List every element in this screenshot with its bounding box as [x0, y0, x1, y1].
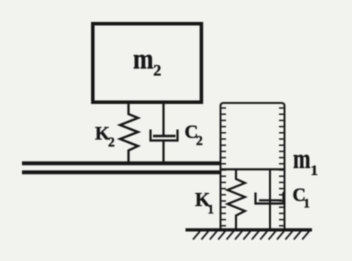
damper C2 piston — [153, 135, 176, 138]
container m1 outline — [221, 103, 285, 229]
damper C1 rod — [269, 170, 271, 229]
label C2 — [185, 122, 204, 148]
spring K1 — [228, 170, 246, 229]
damper C1 cup — [256, 192, 284, 204]
label K1 — [195, 190, 214, 217]
svg-text:1: 1 — [208, 202, 215, 217]
label C1 — [293, 186, 310, 211]
ground line — [186, 228, 313, 231]
svg-text:m: m — [133, 43, 154, 76]
svg-text:1: 1 — [311, 163, 319, 179]
beam lower wire — [22, 170, 220, 174]
label m2 — [133, 43, 161, 80]
platform line inside m1 — [221, 168, 285, 170]
label K2 — [95, 124, 115, 150]
spring K2 — [120, 104, 138, 162]
damper C2 rod lower — [162, 141, 164, 163]
container m1 left edge ticks — [221, 108, 226, 226]
ground hatching — [193, 231, 309, 239]
svg-text:2: 2 — [196, 133, 203, 148]
svg-text:2: 2 — [108, 135, 115, 150]
damper C2 cup — [151, 130, 178, 141]
svg-text:2: 2 — [153, 63, 161, 80]
svg-text:1: 1 — [304, 197, 310, 211]
label m1 — [293, 143, 318, 179]
mass m2 box — [93, 24, 202, 103]
container m1 right edge ticks — [279, 108, 284, 226]
damper C1 piston — [259, 199, 282, 201]
svg-text:m: m — [293, 143, 311, 175]
beam upper wire — [22, 161, 220, 165]
damper C2 rod upper — [162, 104, 164, 136]
